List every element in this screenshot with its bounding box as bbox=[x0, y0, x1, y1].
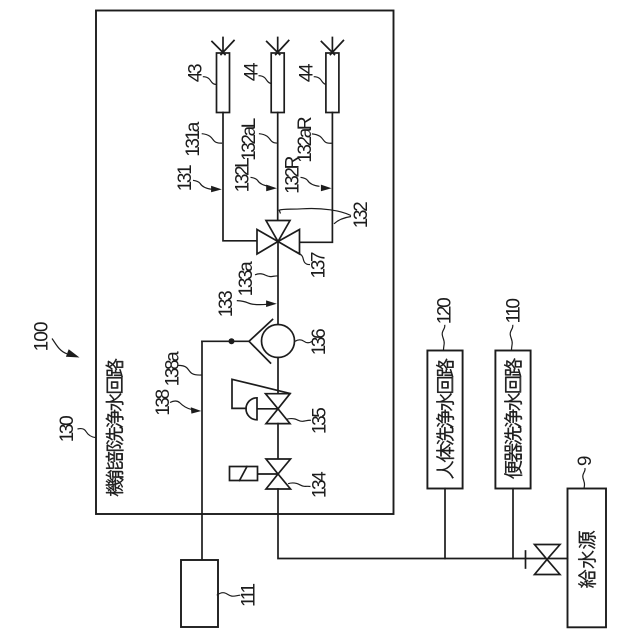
valve 135 actuator flag bbox=[232, 379, 290, 408]
leader 110 bbox=[510, 325, 513, 351]
svg-text:44: 44 bbox=[242, 62, 263, 81]
svg-text:131a: 131a bbox=[183, 121, 204, 157]
svg-text:132L: 132L bbox=[233, 158, 254, 193]
wire 131 (left branch: down then right to valve 137) bbox=[223, 113, 257, 241]
box 9 (water supply source) bbox=[568, 489, 607, 628]
leader lines bbox=[52, 76, 585, 596]
box 110 (toilet washing water circuit) bbox=[495, 351, 530, 489]
box 120 (human-body washing water circuit) bbox=[427, 351, 462, 489]
wire 132L (middle branch into valve 137 top) bbox=[277, 113, 279, 221]
valve 134 solenoid bbox=[230, 467, 258, 481]
svg-text:131: 131 bbox=[175, 165, 196, 191]
leader 132L with arrow bbox=[251, 177, 270, 186]
leader 133 with arrow bbox=[237, 301, 267, 305]
valve 135 actuator dome bbox=[246, 398, 257, 420]
svg-text:135: 135 bbox=[310, 408, 331, 434]
leader 44 middle bbox=[259, 76, 272, 84]
leader 135 bbox=[287, 419, 311, 422]
leader 136 bbox=[295, 340, 312, 343]
leader 138a bbox=[178, 365, 202, 375]
svg-text:134: 134 bbox=[309, 471, 330, 498]
valve 135 actuator stem bbox=[257, 408, 278, 410]
leader 134 bbox=[288, 483, 310, 487]
nozzle 44 (right) body bbox=[326, 53, 339, 113]
svg-text:133: 133 bbox=[216, 291, 237, 317]
valve 135 body bbox=[266, 394, 291, 424]
junction node (dot) bbox=[229, 338, 235, 344]
nozzle 44 (middle) body bbox=[271, 53, 284, 113]
svg-text:132aL: 132aL bbox=[239, 118, 260, 161]
svg-text:132aR: 132aR bbox=[295, 117, 316, 163]
svg-text:138a: 138a bbox=[163, 351, 184, 387]
leader 120 bbox=[442, 325, 445, 351]
leader 132R with arrow bbox=[301, 177, 320, 186]
svg-text:111: 111 bbox=[239, 584, 260, 608]
nozzle 43 body bbox=[217, 53, 230, 113]
svg-text:43: 43 bbox=[186, 64, 207, 82]
nozzle 43 spray bbox=[212, 38, 234, 55]
wire pump to valve 135 bbox=[277, 358, 279, 394]
svg-text:44: 44 bbox=[297, 63, 318, 82]
label 人体洗浄水回路 bbox=[436, 359, 454, 479]
svg-text:132: 132 bbox=[351, 202, 372, 228]
valve 134 body bbox=[266, 459, 291, 489]
box 111 bbox=[181, 560, 218, 627]
label 給水源 bbox=[578, 531, 596, 588]
reference labels (rotated) bbox=[32, 62, 596, 607]
svg-text:9: 9 bbox=[575, 456, 596, 466]
leader 132aL bbox=[259, 134, 278, 143]
svg-text:100: 100 bbox=[32, 322, 53, 351]
wire main line to bottom manifold bbox=[278, 489, 568, 559]
leader 131 with arrow bbox=[193, 180, 212, 189]
nozzle 44 (right) spray bbox=[321, 38, 343, 55]
wire 138 (junction down to box 111) bbox=[201, 341, 203, 560]
wire 132R (right branch: down then left to valve 137) bbox=[300, 113, 332, 243]
leader 132 forked bbox=[279, 208, 351, 215]
leader 43 bbox=[203, 77, 217, 85]
svg-text:120: 120 bbox=[435, 298, 456, 324]
leader 111 bbox=[217, 593, 241, 597]
valve 134 stem bbox=[258, 473, 279, 475]
wire 133 (main line valve 137 to pump 136) bbox=[277, 242, 279, 325]
stop valve (unlabeled) bbox=[535, 545, 561, 575]
pump 136 bbox=[249, 320, 273, 364]
svg-text:132R: 132R bbox=[283, 156, 304, 194]
label 機能部洗浄水回路 bbox=[106, 359, 124, 497]
label 便器洗浄水回路 bbox=[504, 358, 522, 479]
svg-text:130: 130 bbox=[57, 416, 78, 442]
wire box 120 to manifold bbox=[444, 489, 446, 559]
three-way valve 137 bbox=[257, 221, 300, 255]
svg-text:136: 136 bbox=[309, 329, 330, 355]
leader 133a bbox=[255, 274, 278, 277]
leader 138 with arrow bbox=[170, 401, 191, 409]
leader 137 bbox=[296, 251, 311, 264]
leader 44 right bbox=[314, 77, 327, 85]
wire from pump apex to junction bbox=[202, 340, 249, 342]
nozzle 44 (middle) spray bbox=[267, 38, 289, 55]
leader 131a bbox=[202, 134, 222, 143]
leader 132aR bbox=[312, 134, 332, 143]
leader 9 bbox=[583, 468, 585, 488]
svg-text:133a: 133a bbox=[236, 261, 257, 297]
tick mark on manifold bbox=[525, 551, 527, 568]
leader 130 bbox=[78, 429, 97, 438]
svg-text:110: 110 bbox=[504, 299, 525, 324]
svg-text:137: 137 bbox=[309, 252, 330, 278]
wire box 110 to manifold bbox=[512, 489, 514, 559]
enclosure box 130 (functional-part washing water circuit) bbox=[96, 11, 394, 515]
leader 100 arrow bbox=[52, 339, 67, 354]
wire valve 135 to valve 134 bbox=[277, 424, 279, 459]
